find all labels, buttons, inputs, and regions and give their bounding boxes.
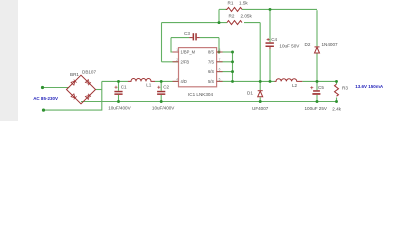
svg-text:1: 1 [176, 48, 178, 52]
svg-text:4/D: 4/D [181, 79, 187, 84]
svg-text:D2: D2 [305, 42, 311, 47]
svg-text:2.4k: 2.4k [332, 106, 341, 111]
svg-text:C5: C5 [318, 85, 324, 90]
svg-text:AC 85-230V: AC 85-230V [33, 96, 58, 101]
svg-text:D1: D1 [247, 90, 253, 95]
svg-text:8/S: 8/S [208, 50, 214, 55]
svg-text:6/S: 6/S [208, 69, 214, 74]
svg-text:2/FB: 2/FB [181, 59, 190, 64]
svg-text:100uF 25V: 100uF 25V [305, 106, 328, 111]
svg-text:R2: R2 [229, 14, 235, 19]
svg-text:8: 8 [219, 48, 221, 52]
svg-text:10uF/400V: 10uF/400V [152, 105, 175, 110]
svg-text:2: 2 [176, 58, 178, 62]
svg-text:7/S: 7/S [208, 59, 214, 64]
svg-text:C2: C2 [163, 85, 169, 90]
svg-text:5/S: 5/S [208, 79, 214, 84]
svg-text:1.5k: 1.5k [239, 0, 248, 5]
svg-text:4: 4 [176, 77, 178, 81]
svg-text:10uF 50V: 10uF 50V [279, 43, 300, 48]
svg-text:DB107: DB107 [82, 70, 96, 75]
svg-text:R1: R1 [228, 1, 234, 6]
svg-text:IC1 LNK304: IC1 LNK304 [188, 92, 213, 97]
svg-text:L2: L2 [292, 83, 298, 88]
svg-text:UF4007: UF4007 [252, 106, 269, 111]
svg-text:5: 5 [219, 77, 221, 81]
svg-text:7: 7 [219, 58, 221, 62]
svg-text:2.05k: 2.05k [241, 14, 253, 19]
svg-text:10uF/400V: 10uF/400V [108, 105, 131, 110]
svg-text:L1: L1 [146, 83, 152, 88]
svg-text:13.6V 150mA: 13.6V 150mA [355, 84, 384, 89]
svg-text:C3: C3 [184, 31, 190, 36]
svg-text:1N4007: 1N4007 [322, 42, 339, 47]
svg-text:BR1: BR1 [70, 72, 79, 77]
svg-text:R3: R3 [342, 86, 348, 91]
svg-text:C4: C4 [271, 37, 277, 42]
svg-text:C1: C1 [121, 85, 127, 90]
svg-text:6: 6 [219, 68, 221, 72]
svg-text:1/BP_M: 1/BP_M [181, 50, 196, 55]
